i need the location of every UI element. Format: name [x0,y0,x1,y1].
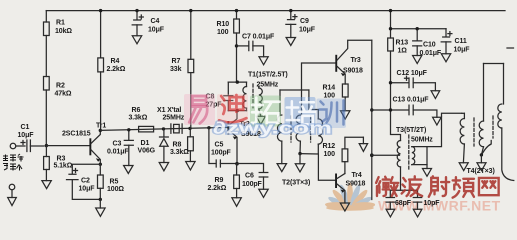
node rail R10 [235,9,238,12]
watermark tile char pei [285,97,316,128]
wire Tr3 collector feed vertical [371,40,373,199]
node C13 left [389,108,392,111]
resistor R7 [170,11,194,129]
wire base [46,145,89,147]
node R13 branch [389,27,392,30]
svg-text:R8: R8 [173,141,182,148]
svg-text:D1: D1 [141,140,150,147]
svg-text:0.01μF: 0.01μF [420,50,442,57]
svg-text:0.01μF: 0.01μF [107,148,129,155]
svg-text:T3(5T/2T): T3(5T/2T) [396,127,426,134]
ground C13 [433,117,442,125]
ground C6 [259,189,268,197]
resistor R4 [98,11,126,131]
wire oscillator line [100,127,227,130]
ground T4 left winding [459,163,468,171]
svg-text:S9018: S9018 [343,67,363,74]
svg-text:C4: C4 [151,18,160,25]
ground T3 secondary [423,169,432,177]
svg-text:C13 0.01μF: C13 0.01μF [393,97,430,104]
node T2 right winding bottom [298,152,301,155]
svg-text:R4: R4 [111,58,120,65]
svg-text:C2: C2 [81,177,90,184]
watermark web text center [213,119,332,138]
svg-text:C3: C3 [113,140,122,147]
ground 10pF [413,209,422,217]
svg-text:25MHz: 25MHz [257,81,279,88]
watermark red text mwrf [376,176,499,197]
wire top supply rail [46,10,505,12]
input terminal [10,143,25,149]
arrow test point near R12 [359,137,367,151]
svg-text:100: 100 [217,29,229,36]
ground C10 [413,56,422,64]
transformer T1 with capacitor C8 [206,71,288,116]
ground C9 [286,38,295,46]
ground R5 [96,208,105,216]
watermark tile char yi [184,94,215,125]
watermark tile char xun [317,99,347,129]
svg-text:X1 X′tal: X1 X′tal [157,107,181,114]
capacitor C10 [413,29,442,57]
capacitor C2 [67,164,101,199]
resistor R9 [208,164,240,198]
resistor R8 [170,128,193,161]
svg-text:3.3kΩ: 3.3kΩ [129,115,148,122]
svg-text:10μF: 10μF [299,26,316,33]
svg-text:2SC1815: 2SC1815 [62,130,91,137]
svg-text:R5: R5 [110,179,119,186]
svg-text:10kΩ: 10kΩ [55,28,72,35]
watermark fan logo [325,183,376,212]
svg-text:R13: R13 [396,39,409,46]
node rail R4 [99,9,102,12]
node C3 top [127,128,130,131]
svg-text:2.2kΩ: 2.2kΩ [107,66,126,73]
svg-text:100: 100 [324,93,336,100]
ground R3 [42,181,51,189]
resistor R2 [44,77,72,146]
ground Tr4 emitter [340,203,349,211]
resistor R14 [323,84,349,111]
svg-text:10μF: 10μF [454,46,471,53]
svg-text:10pF: 10pF [424,200,441,207]
svg-text:T1(15T/2.5T): T1(15T/2.5T) [248,71,288,78]
resistor R3 [44,146,73,181]
svg-text:47kΩ: 47kΩ [55,90,72,97]
input lower terminal [9,184,15,190]
svg-text:R10: R10 [217,21,230,28]
capacitor 10pF [413,190,440,209]
svg-text:50MHz: 50MHz [411,136,433,143]
svg-text:C9: C9 [300,18,309,25]
svg-text:R6: R6 [132,107,141,114]
capacitor C9 [286,11,316,38]
node rail C9 [289,9,292,12]
svg-text:68pF: 68pF [395,200,412,207]
transistor Tr2 S9018 [227,111,261,164]
capacitor C7 [237,34,275,57]
watermark tile char tuo [250,96,281,127]
svg-text:R3: R3 [57,156,66,163]
svg-text:Tr4: Tr4 [352,172,362,179]
resistor R1 [44,11,73,77]
capacitor C6 [237,164,268,190]
node crystal right R7 R8 [188,127,191,130]
node T4 middle bottom [480,153,483,156]
node Tr1 emitter junction [99,163,102,175]
ground T1 secondary [256,116,265,124]
wire stub right edge [507,47,514,49]
svg-text:C7 0.01μF: C7 0.01μF [242,34,275,41]
svg-text:100pF: 100pF [242,181,263,188]
ground R8 [186,162,195,171]
ground C11 [441,54,450,62]
capacitor C3 [107,130,133,166]
ground 68pF [386,209,395,217]
resistor R12 [323,137,364,173]
svg-text:10μF: 10μF [18,132,35,139]
svg-text:2.2kΩ: 2.2kΩ [208,185,227,192]
capacitor 68pF [386,190,417,209]
svg-text:100Ω: 100Ω [107,186,124,193]
svg-text:R12: R12 [323,143,336,150]
transformer T3 50MHz [396,113,462,190]
svg-text:5.1kΩ: 5.1kΩ [54,163,73,170]
node rail R7 [189,9,192,12]
capacitor C12 [391,70,436,91]
node collector line C13 tap [370,108,373,111]
ground C12 [431,91,440,99]
resistor R13 [388,11,446,141]
watermark tile char di [217,94,248,125]
ground C3 [124,166,133,174]
node Tr1 collector [99,129,102,132]
capacitor C4 [132,11,165,36]
diode D1 V06G varactor [138,129,169,163]
node rail C4 [135,9,138,12]
svg-text:C6: C6 [245,172,254,179]
node C12 left [389,81,392,84]
svg-text:V06G: V06G [138,148,156,155]
resistor R6 [129,107,154,132]
node T1 bottom [236,109,239,112]
svg-text:C1: C1 [21,124,30,131]
ground C7 [259,57,268,65]
svg-text:1Ω: 1Ω [398,47,408,54]
svg-text:T2(3T×3): T2(3T×3) [282,179,310,186]
svg-text:R7: R7 [172,58,181,65]
resistor R5 [98,175,125,199]
transistor Tr3 S9018 [335,40,372,84]
capacitor C5 [209,128,237,167]
transistor Tr1 2SC1815 [62,122,106,164]
svg-text:100pF: 100pF [211,149,232,156]
node Tr2 base [207,126,210,129]
capacitor C11 [441,29,470,54]
svg-text:S9018: S9018 [346,181,366,188]
capacitor C1 [18,124,45,152]
node collector line T3 tap [370,153,400,157]
ground C4 [132,36,141,44]
svg-text:33k: 33k [170,66,182,73]
ground R9 [232,198,241,207]
svg-text:R2: R2 [56,82,65,89]
ground D1 [159,163,168,171]
svg-text:R9: R9 [215,177,224,184]
svg-text:C12 10μF: C12 10μF [397,70,428,77]
transformer T2 [277,63,335,186]
watermark url mwrf [378,198,501,214]
svg-text:R1: R1 [56,20,65,27]
svg-text:C11: C11 [455,38,467,45]
svg-text:C10: C10 [423,42,436,49]
node C5 right emitter R9 [235,162,239,166]
node D1 junction [162,127,165,130]
ground T2 right winding [295,154,304,172]
capacitor C13 [372,97,437,118]
crystal X1 25MHz [157,107,185,134]
svg-text:3.3kΩ: 3.3kΩ [170,149,189,156]
node R5 C2 bottom [99,198,102,208]
ground T4 middle winding [477,155,486,171]
node C7 junction [235,44,238,47]
svg-text:∂zwy.com: ∂zwy.com [213,119,332,138]
svg-text:25MHz: 25MHz [163,114,185,121]
resistor R10 [217,11,240,83]
svg-text:C5: C5 [215,141,224,148]
svg-text:10μF: 10μF [148,26,165,33]
node base junction [45,144,48,147]
transistor Tr4 S9018 [335,172,365,203]
svg-text:Tr3: Tr3 [351,57,361,64]
node rail R13 [389,9,392,12]
svg-text:10μF: 10μF [79,185,96,192]
node C10 top [416,27,419,30]
label audio signal input (hand-drawn CJK 音频信/号输入) [3,154,24,171]
node T1 top [236,80,239,83]
ground below input terminal [8,190,17,206]
ground R14 [341,111,350,119]
svg-text:R14: R14 [323,85,336,92]
transformer T4 output [460,64,514,181]
ground T2 left winding [277,164,286,172]
svg-text:100: 100 [324,151,336,158]
